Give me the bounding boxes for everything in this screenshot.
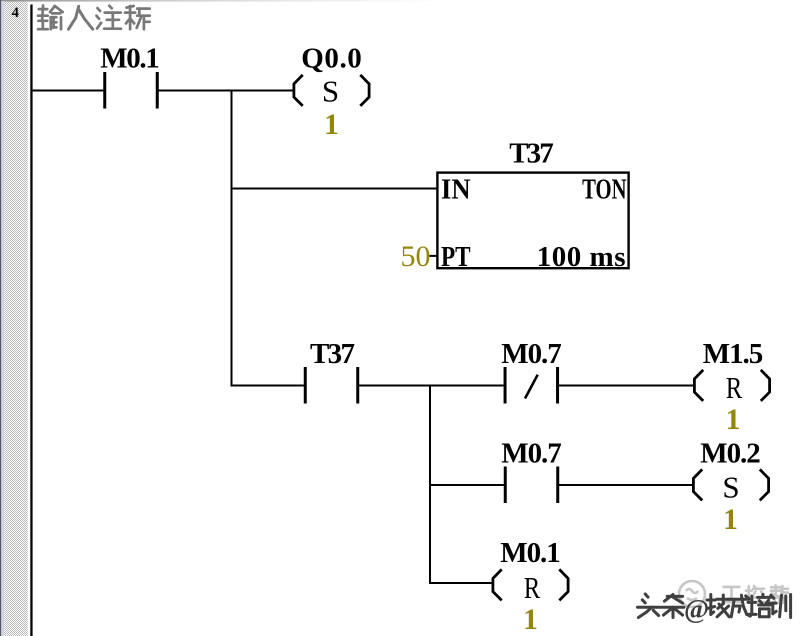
coil M1.5 reset	[694, 370, 769, 401]
wire branch to timer IN	[232, 188, 438, 190]
svg-text:M0.7: M0.7	[501, 338, 562, 370]
svg-text:M0.1: M0.1	[500, 537, 561, 569]
wire branch to contact T37	[232, 385, 306, 387]
lavender strip	[1, 1, 4, 636]
svg-text:1: 1	[723, 504, 738, 536]
svg-text:R: R	[524, 570, 541, 605]
svg-text:TON: TON	[582, 174, 626, 206]
wire contact M0.7 to coil M1.5	[558, 385, 696, 387]
svg-text:1: 1	[726, 404, 741, 436]
svg-text:M0.1: M0.1	[100, 43, 160, 75]
svg-text:PT: PT	[441, 241, 471, 273]
faint watermark logo circle	[679, 581, 705, 607]
wire rail to contact M0.1	[33, 90, 105, 92]
contact M0.7 normally-closed	[505, 367, 558, 404]
top border line	[0, 0, 440, 2]
wire contact M0.7 to coil M0.2	[558, 484, 694, 486]
contact T37	[305, 367, 358, 404]
svg-text:1: 1	[523, 604, 538, 636]
svg-text:T37: T37	[509, 138, 553, 170]
branch vertical from rung1 down to rung3	[231, 90, 233, 387]
svg-text:M1.5: M1.5	[703, 338, 764, 370]
wire branch to contact M0.7 (rung4)	[430, 484, 505, 486]
svg-text:100 ms: 100 ms	[537, 241, 626, 273]
svg-text:50: 50	[401, 240, 431, 273]
PT input stub	[430, 255, 438, 257]
timer box T37 TON	[437, 173, 628, 269]
svg-text:T37: T37	[310, 338, 355, 370]
contact M0.1 (rung 1)	[105, 72, 158, 109]
svg-text:S: S	[722, 470, 739, 505]
coil M0.2 set	[693, 469, 768, 500]
branch vertical from rung3 down to rung5	[429, 385, 431, 585]
faint watermark text 工控帮	[722, 585, 788, 603]
svg-text:IN: IN	[441, 174, 471, 206]
coil Q0.0 set	[294, 75, 369, 106]
wire contact T37 to contact M0.7 NC	[358, 385, 505, 387]
watermark 头条 @技成培训	[638, 594, 791, 624]
left power rail	[30, 5, 32, 636]
svg-text:4: 4	[12, 5, 19, 21]
svg-text:S: S	[322, 74, 339, 109]
wire branch to coil M0.1	[430, 582, 494, 584]
svg-text:1: 1	[324, 109, 339, 141]
wire contact M0.1 to coil Q0.0	[157, 90, 294, 92]
network comment 输入注释	[38, 6, 150, 30]
contact M0.7 (rung 4)	[505, 467, 558, 504]
svg-text:Q0.0: Q0.0	[301, 43, 362, 75]
svg-text:R: R	[726, 370, 743, 405]
svg-text:@: @	[684, 594, 709, 624]
svg-text:M0.7: M0.7	[501, 438, 562, 470]
network margin dither	[4, 2, 27, 636]
svg-text:M0.2: M0.2	[700, 438, 761, 470]
left window edge	[0, 0, 1, 636]
coil M0.1 reset	[493, 569, 568, 600]
